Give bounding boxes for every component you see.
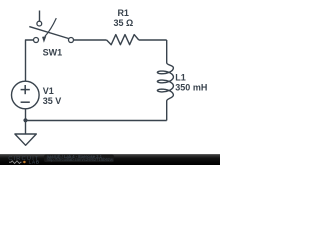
svg-text:http://circuitlab.com/c2sf6271: http://circuitlab.com/c2sf62715b6zw (47, 157, 114, 162)
label L1 value 350 mH (175, 82, 207, 92)
wire: switch left terminal to left rail corner (26, 40, 34, 81)
voltage source V1 (11, 81, 39, 109)
svg-text:350 mH: 350 mH (175, 82, 207, 92)
label R1 value 35 ohm (114, 18, 134, 28)
wire: bottom rail (26, 120, 167, 122)
label R1 (117, 8, 129, 18)
footer credit text line 2 (47, 157, 114, 162)
svg-text:R1: R1 (117, 8, 129, 18)
footer credit text line 1 (47, 154, 103, 159)
svg-text:35 V: 35 V (43, 96, 62, 106)
svg-text:L1: L1 (175, 73, 186, 83)
svg-text:SW1: SW1 (43, 48, 63, 58)
label SW1 (43, 48, 63, 58)
footer bar (0, 154, 220, 165)
footer CircuitLab logo (8, 156, 40, 165)
label V1 (43, 86, 54, 96)
label V1 value 35 V (43, 96, 62, 106)
wire: resistor to top-right corner (139, 39, 167, 41)
ground (15, 121, 36, 146)
node junction (bottom-left) (23, 118, 27, 122)
resistor R1 (107, 35, 139, 45)
wire: switch right terminal to resistor (74, 39, 107, 41)
svg-text:V1: V1 (43, 86, 54, 96)
svg-text:LAB: LAB (29, 160, 40, 165)
inductor L1 (157, 40, 173, 121)
wire: source bottom to junction (25, 109, 27, 121)
switch SW1 (29, 18, 73, 43)
wire: switch top lead stub (39, 11, 41, 22)
label L1 (175, 73, 186, 83)
svg-text:35 Ω: 35 Ω (114, 18, 134, 28)
